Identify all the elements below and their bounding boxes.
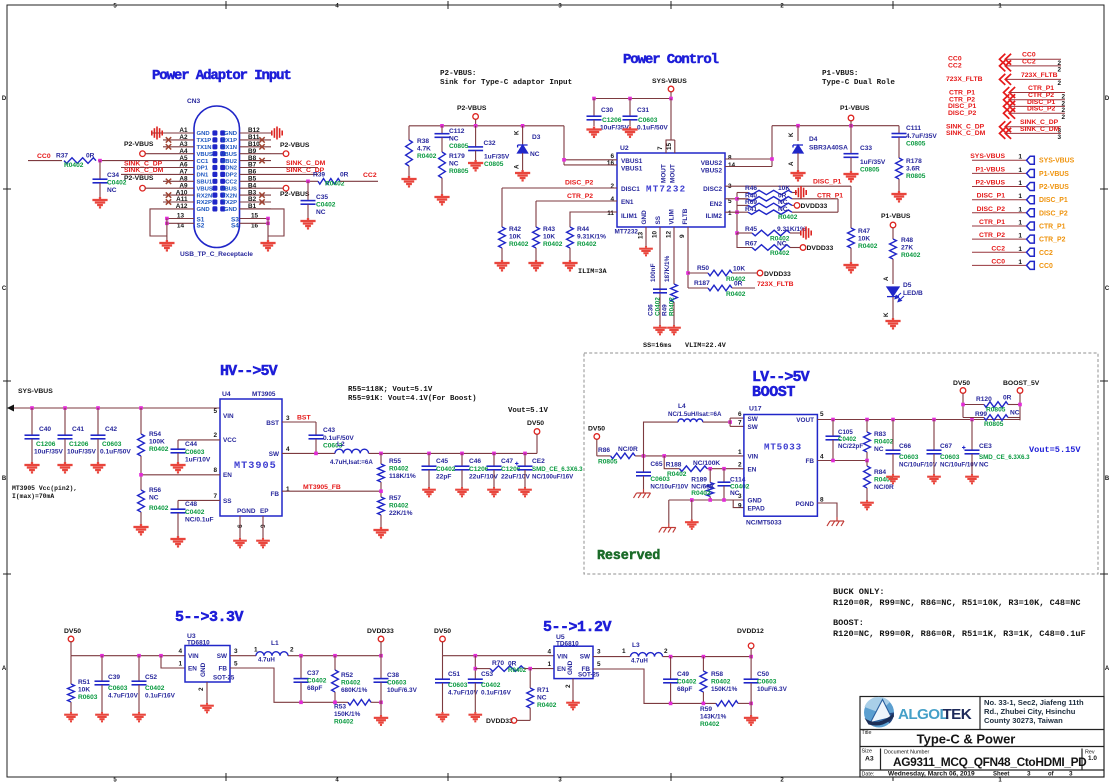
- svg-text:NC: NC: [1010, 410, 1020, 417]
- svg-text:USB_TP_C_Receptacle: USB_TP_C_Receptacle: [180, 251, 253, 258]
- svg-text:C0402: C0402: [185, 509, 205, 516]
- ground C51: [436, 712, 450, 721]
- wire SW: [282, 452, 335, 454]
- net SINK_C_DM left A7: [121, 173, 163, 175]
- svg-text:R0402: R0402: [667, 471, 687, 478]
- svg-text:R52: R52: [341, 672, 353, 679]
- svg-text:C36: C36: [648, 304, 655, 316]
- wire GND EPAD rail: [669, 499, 744, 501]
- wire SS C48: [178, 499, 220, 501]
- svg-text:1: 1: [178, 661, 182, 668]
- svg-text:RX2P: RX2P: [197, 200, 212, 206]
- svg-text:3: 3: [597, 649, 601, 656]
- svg-text:C0805: C0805: [906, 141, 926, 148]
- resistor R44 9.31K: [570, 212, 617, 227]
- svg-text:C65: C65: [650, 461, 662, 468]
- svg-text:CE3: CE3: [979, 443, 992, 450]
- svg-text:R67: R67: [745, 241, 757, 248]
- svg-text:GND: GND: [197, 131, 210, 137]
- svg-text:C111: C111: [906, 125, 921, 132]
- svg-text:DP2: DP2: [226, 173, 238, 179]
- ground C52: [132, 712, 146, 721]
- svg-text:1: 1: [286, 486, 290, 493]
- wire SW to L3: [593, 656, 630, 658]
- svg-text:P2-VBUS: P2-VBUS: [280, 191, 310, 198]
- svg-text:NC/10uF/10V: NC/10uF/10V: [940, 462, 979, 469]
- capacitor C114: [723, 469, 725, 482]
- svg-text:R45: R45: [745, 226, 757, 233]
- svg-text:VBUS: VBUS: [221, 186, 237, 192]
- svg-text:NC/0.1uF: NC/0.1uF: [185, 517, 214, 524]
- svg-text:R0402: R0402: [901, 252, 921, 259]
- svg-text:9: 9: [679, 234, 686, 238]
- svg-text:1uF/10V: 1uF/10V: [185, 457, 211, 464]
- svg-text:VBUS1: VBUS1: [621, 158, 643, 165]
- svg-text:DVDD12: DVDD12: [737, 628, 764, 635]
- svg-text:C53: C53: [481, 671, 493, 678]
- svg-text:R58: R58: [711, 671, 723, 678]
- svg-text:C0603: C0603: [108, 685, 128, 692]
- svg-text:MT5033: MT5033: [764, 442, 802, 453]
- svg-text:VLIM=22.4V: VLIM=22.4V: [685, 342, 727, 350]
- power bars B12: [240, 132, 272, 134]
- svg-text:L4: L4: [678, 403, 686, 410]
- capacitor C34: [99, 161, 101, 179]
- svg-text:10K: 10K: [543, 234, 555, 241]
- svg-text:DV50: DV50: [434, 628, 451, 635]
- svg-text:118K/1%: 118K/1%: [389, 473, 416, 480]
- svg-text:L2: L2: [337, 441, 345, 448]
- svg-text:R59: R59: [700, 706, 712, 713]
- svg-text:DP1: DP1: [197, 166, 209, 172]
- svg-text:R0402: R0402: [669, 297, 676, 316]
- net SINK_C_DP left A6: [121, 167, 163, 169]
- ground CN3 left: [159, 240, 174, 250]
- resistor R41 NC: [737, 211, 748, 213]
- wire L1 to DVDD33: [288, 655, 381, 657]
- svg-text:DISC_P1: DISC_P1: [813, 179, 842, 186]
- svg-text:5-->1.2V: 5-->1.2V: [543, 619, 612, 636]
- svg-text:Sink for Type-C adaptor Input: Sink for Type-C adaptor Input: [440, 79, 572, 87]
- svg-text:TX2N: TX2N: [222, 193, 237, 199]
- svg-text:4: 4: [286, 446, 290, 453]
- svg-text:R189: R189: [691, 476, 707, 483]
- capacitor C52: [138, 656, 140, 681]
- svg-text:1: 1: [738, 449, 742, 456]
- svg-text:1: 1: [1018, 154, 1022, 161]
- svg-text:FB: FB: [805, 458, 814, 465]
- wire VOUT rail: [817, 419, 1020, 421]
- svg-text:100nF: 100nF: [650, 263, 657, 282]
- svg-text:C0402: C0402: [307, 678, 327, 685]
- svg-text:4: 4: [610, 196, 614, 203]
- svg-text:16: 16: [607, 160, 615, 167]
- svg-text:U4: U4: [222, 391, 231, 398]
- svg-text:DISC2: DISC2: [703, 186, 722, 193]
- svg-text:C32: C32: [484, 140, 496, 147]
- svg-text:BOOST:: BOOST:: [833, 618, 864, 628]
- svg-text:DVDD33: DVDD33: [367, 628, 394, 635]
- svg-text:R0805: R0805: [598, 459, 618, 466]
- svg-text:R47: R47: [858, 228, 870, 235]
- resistor R70 0R: [474, 667, 478, 671]
- svg-text:R56: R56: [149, 487, 161, 494]
- wire ILIM2: [725, 211, 737, 213]
- svg-text:0R: 0R: [734, 281, 743, 288]
- svg-text:I(max)=70mA: I(max)=70mA: [12, 493, 54, 500]
- svg-text:7: 7: [657, 146, 664, 150]
- svg-text:2: 2: [1062, 114, 1066, 121]
- svg-text:DISC_P2: DISC_P2: [1039, 210, 1068, 217]
- svg-text:CTR_P1: CTR_P1: [949, 89, 975, 96]
- ground R84: [860, 500, 874, 509]
- svg-text:GND: GND: [224, 207, 237, 213]
- svg-text:NC: NC: [778, 199, 788, 206]
- svg-text:1uF/35V: 1uF/35V: [484, 154, 510, 161]
- svg-text:DVDD33: DVDD33: [764, 271, 791, 278]
- svg-text:DISC_P2: DISC_P2: [977, 206, 1006, 213]
- svg-text:C47: C47: [501, 458, 513, 465]
- svg-text:C45: C45: [436, 458, 448, 465]
- svg-text:DISC_P2: DISC_P2: [948, 110, 977, 117]
- svg-text:Vout=5.1V: Vout=5.1V: [508, 407, 548, 415]
- resistor R189 NC/68K vertical: [709, 469, 711, 483]
- capacitor C37: [300, 656, 302, 679]
- svg-text:BOOST: BOOST: [752, 384, 795, 401]
- net DISC_P1 wire: [725, 185, 851, 187]
- wire VCC: [178, 439, 220, 441]
- wire FB to divider buck12: [593, 669, 716, 703]
- svg-text:VBUS: VBUS: [221, 152, 237, 158]
- svg-text:VIN: VIN: [748, 454, 759, 461]
- svg-text:C0402: C0402: [436, 466, 456, 473]
- U4 PGND EP grounds: [239, 516, 241, 538]
- svg-text:R0402: R0402: [537, 702, 557, 709]
- svg-text:C0603: C0603: [757, 679, 777, 686]
- svg-text:K: K: [788, 132, 795, 137]
- svg-text:R83: R83: [874, 431, 886, 438]
- svg-text:ALGOL: ALGOL: [898, 706, 948, 723]
- power bars A1: [151, 132, 163, 134]
- svg-text:ILIM=3A: ILIM=3A: [578, 268, 607, 276]
- capacitor C39: [101, 656, 103, 681]
- ground D5: [885, 318, 900, 328]
- svg-text:R44: R44: [577, 226, 589, 233]
- ground D3: [515, 170, 530, 180]
- svg-text:R0402: R0402: [389, 466, 409, 473]
- svg-text:SOT-25: SOT-25: [213, 675, 235, 682]
- svg-text:TX2P: TX2P: [222, 200, 237, 206]
- svg-text:MT7232: MT7232: [646, 184, 686, 195]
- svg-text:C66: C66: [899, 443, 911, 450]
- svg-text:R178: R178: [906, 158, 922, 165]
- svg-text:MT3905: MT3905: [252, 391, 276, 398]
- svg-text:1: 1: [1018, 180, 1022, 187]
- wire SW pins: [728, 420, 732, 424]
- svg-text:VIN: VIN: [188, 653, 199, 660]
- svg-text:GND: GND: [224, 131, 237, 137]
- svg-text:P1-VBUS: P1-VBUS: [881, 213, 911, 220]
- svg-text:10uF/6.3V: 10uF/6.3V: [757, 686, 788, 693]
- ground C34: [92, 197, 107, 207]
- svg-text:2: 2: [565, 684, 572, 688]
- svg-text:R70: R70: [492, 660, 504, 667]
- svg-text:C1206: C1206: [602, 117, 622, 124]
- svg-text:D: D: [2, 96, 7, 102]
- svg-text:R84: R84: [874, 469, 886, 476]
- svg-text:NC/10uF/10V: NC/10uF/10V: [650, 483, 689, 490]
- svg-text:R0402: R0402: [508, 667, 527, 674]
- svg-text:S2: S2: [197, 223, 205, 230]
- svg-text:P1-VBUS: P1-VBUS: [976, 166, 1006, 173]
- svg-text:R71: R71: [537, 687, 549, 694]
- svg-text:EP: EP: [260, 508, 269, 515]
- resistor R50 10K: [688, 272, 708, 274]
- ground C30: [586, 127, 601, 137]
- svg-text:C0402: C0402: [316, 202, 336, 209]
- svg-text:R0402: R0402: [858, 243, 878, 250]
- svg-text:P2-VBUS: P2-VBUS: [457, 105, 487, 112]
- capacitor C51: [442, 656, 444, 679]
- svg-text:FLTB: FLTB: [682, 208, 689, 224]
- svg-text:R0603: R0603: [78, 694, 98, 701]
- svg-text:NC: NC: [449, 161, 459, 168]
- svg-text:C0402: C0402: [838, 436, 857, 443]
- svg-text:DISC_P2: DISC_P2: [1027, 106, 1056, 113]
- ground C32: [468, 160, 483, 170]
- svg-text:2: 2: [738, 462, 742, 469]
- svg-text:R0402: R0402: [543, 241, 563, 248]
- svg-text:R0805: R0805: [449, 168, 469, 175]
- svg-text:Power Control: Power Control: [623, 52, 719, 68]
- svg-text:P2-VBUS: P2-VBUS: [976, 180, 1006, 187]
- svg-text:No. 33-1, Sec2, Jiafeng 11th: No. 33-1, Sec2, Jiafeng 11th: [984, 698, 1084, 707]
- svg-text:0R: 0R: [340, 172, 349, 179]
- ground C38: [374, 715, 388, 725]
- svg-text:R55: R55: [389, 458, 401, 465]
- resistor R57 22K: [378, 497, 385, 515]
- ground C48: [170, 536, 185, 546]
- ground U2 GND: [639, 246, 653, 255]
- svg-text:EN: EN: [188, 666, 197, 673]
- wire EN buck33: [161, 656, 185, 668]
- svg-text:R50: R50: [697, 265, 709, 272]
- svg-text:3: 3: [1027, 771, 1031, 778]
- svg-text:ILIM1: ILIM1: [621, 213, 638, 220]
- svg-text:PGND: PGND: [796, 501, 815, 508]
- svg-text:R179: R179: [449, 153, 465, 160]
- svg-text:SW: SW: [580, 654, 591, 661]
- svg-text:1: 1: [1018, 259, 1022, 266]
- svg-text:Title: Title: [862, 730, 872, 736]
- svg-text:Reserved: Reserved: [597, 549, 660, 564]
- svg-text:P1-VBUS: P1-VBUS: [840, 105, 870, 112]
- svg-text:R0402: R0402: [577, 241, 597, 248]
- svg-text:1: 1: [547, 661, 551, 668]
- svg-text:R37: R37: [56, 153, 68, 160]
- svg-text:4: 4: [547, 649, 551, 656]
- wire EN: [707, 468, 744, 470]
- svg-text:CTR_P1: CTR_P1: [1028, 85, 1054, 92]
- resistor R52 680K: [334, 656, 336, 670]
- wire P1 rail: [772, 125, 899, 127]
- ground R42: [494, 260, 509, 270]
- svg-text:9: 9: [738, 503, 742, 510]
- ground R51: [64, 712, 78, 721]
- P2-VBUS right B4: [271, 187, 283, 189]
- ground C42: [90, 462, 105, 472]
- svg-text:TD6810: TD6810: [556, 640, 579, 647]
- svg-text:SBU1: SBU1: [197, 180, 213, 186]
- capacitor C35: [307, 181, 309, 200]
- svg-text:SS: SS: [223, 498, 232, 505]
- svg-text:R120: R120: [976, 396, 992, 403]
- svg-text:5-->3.3V: 5-->3.3V: [175, 609, 244, 626]
- svg-text:of: of: [1048, 772, 1055, 778]
- svg-text:DV50: DV50: [953, 380, 970, 387]
- svg-text:CC0: CC0: [1039, 263, 1053, 270]
- U3 GND stub: [206, 682, 208, 703]
- svg-text:R0402: R0402: [874, 439, 894, 446]
- capacitor C31: [629, 99, 631, 117]
- svg-text:4.7uF/10V: 4.7uF/10V: [108, 693, 139, 700]
- svg-text:C0603: C0603: [185, 449, 205, 456]
- svg-text:VBUS1: VBUS1: [621, 166, 643, 173]
- svg-text:CTR_P1: CTR_P1: [1039, 224, 1066, 231]
- svg-text:4.7uF/10V: 4.7uF/10V: [448, 690, 479, 697]
- svg-text:R57: R57: [389, 495, 401, 502]
- svg-text:GND: GND: [641, 210, 648, 225]
- svg-text:1: 1: [622, 648, 626, 655]
- svg-text:2: 2: [1058, 80, 1062, 87]
- CN3 no-connect x marks left: [166, 137, 171, 142]
- svg-text:NC: NC: [107, 187, 117, 194]
- svg-text:C0603: C0603: [102, 441, 122, 448]
- wire EN: [141, 474, 220, 476]
- svg-text:R49: R49: [662, 304, 669, 316]
- svg-text:Rd., Zhubei City, Hsinchu: Rd., Zhubei City, Hsinchu: [984, 707, 1076, 716]
- svg-text:L3: L3: [632, 642, 640, 649]
- svg-text:143K/1%: 143K/1%: [700, 714, 727, 721]
- B1 GND route right: [240, 209, 285, 236]
- svg-text:VBUS: VBUS: [197, 152, 213, 158]
- svg-text:P2-VBUS:: P2-VBUS:: [440, 70, 476, 78]
- svg-text:B: B: [2, 476, 7, 482]
- wire VBUS2 to P1 rail: [725, 158, 772, 160]
- svg-text:SYS-VBUS: SYS-VBUS: [970, 153, 1005, 160]
- ground EP: [256, 538, 270, 547]
- svg-text:VIN: VIN: [557, 654, 568, 661]
- diode D3 NC: [522, 126, 524, 145]
- svg-text:2: 2: [1058, 67, 1062, 74]
- svg-text:DV50: DV50: [588, 426, 605, 433]
- capacitor C66: [892, 420, 894, 451]
- svg-text:SBR3A40SA: SBR3A40SA: [809, 145, 848, 152]
- capacitor C44: [171, 449, 186, 453]
- resistor R40 0R: [737, 198, 748, 200]
- svg-text:Wednesday, March 06, 2019: Wednesday, March 06, 2019: [888, 771, 975, 778]
- svg-text:150K/1%: 150K/1%: [334, 711, 361, 718]
- S1 S2 wires: [167, 218, 194, 220]
- power DVDD33 R50: [757, 270, 763, 276]
- svg-text:RX1N: RX1N: [221, 145, 237, 151]
- svg-text:P1-VBUS: P1-VBUS: [1039, 171, 1069, 178]
- svg-text:R0402: R0402: [778, 214, 798, 221]
- resistor R48 27K: [892, 228, 894, 239]
- svg-text:680K/1%: 680K/1%: [341, 687, 368, 694]
- ground C44: [170, 462, 185, 472]
- earth ground PGND: [827, 517, 844, 526]
- svg-text:MT3905_FB: MT3905_FB: [303, 484, 341, 491]
- svg-text:R55=118K; Vout=5.1V: R55=118K; Vout=5.1V: [348, 386, 433, 394]
- svg-text:C: C: [2, 286, 7, 292]
- svg-text:C1206: C1206: [69, 441, 89, 448]
- net BST wire: [282, 421, 316, 423]
- svg-text:DISC_P2: DISC_P2: [565, 180, 594, 187]
- svg-text:6: 6: [738, 411, 742, 418]
- svg-text:C0805: C0805: [860, 167, 880, 174]
- wire VIN: [635, 455, 744, 457]
- svg-text:0.1uF/50V: 0.1uF/50V: [637, 125, 668, 132]
- net CC0 wire: [28, 160, 62, 162]
- svg-text:0.1uF/50V: 0.1uF/50V: [100, 449, 131, 456]
- ground C45: [422, 487, 436, 496]
- svg-text:GND: GND: [197, 207, 210, 213]
- capacitor C38: [380, 656, 382, 679]
- connector CN3 USB_TP_C_Receptacle body: [194, 106, 240, 248]
- IC U3 TD6810 body: [185, 646, 230, 683]
- svg-text:C51: C51: [448, 671, 460, 678]
- svg-text:C40: C40: [39, 426, 51, 433]
- ground C39: [95, 712, 109, 721]
- ground C36: [653, 325, 667, 334]
- resistor R46 10K: [737, 192, 748, 194]
- svg-text:P1-VBUS:: P1-VBUS:: [822, 70, 858, 78]
- svg-text:NC/0R: NC/0R: [874, 484, 894, 491]
- svg-text:NC/10uF/10V: NC/10uF/10V: [899, 462, 938, 469]
- svg-text:K: K: [514, 130, 521, 135]
- svg-text:5: 5: [213, 408, 217, 415]
- svg-text:CC2: CC2: [948, 62, 962, 69]
- svg-text:DISC_P1: DISC_P1: [1039, 197, 1068, 204]
- svg-text:D3: D3: [532, 134, 541, 141]
- svg-text:C33: C33: [860, 145, 872, 152]
- capacitor C42: [97, 408, 99, 435]
- svg-text:P2-VBUS: P2-VBUS: [124, 175, 154, 182]
- capacitor C43: [309, 435, 324, 439]
- svg-text:5: 5: [234, 661, 238, 668]
- wire FB to divider: [230, 668, 348, 702]
- svg-text:5: 5: [597, 661, 601, 668]
- wire SYS-VBUS to MOUT: [666, 99, 671, 154]
- ground C35: [300, 218, 315, 228]
- svg-text:R42: R42: [509, 226, 521, 233]
- net CTR_P2: [536, 200, 617, 202]
- svg-text:RX1P: RX1P: [222, 138, 237, 144]
- ground C31: [622, 127, 637, 137]
- svg-text:7: 7: [213, 493, 217, 500]
- svg-text:NC/100K: NC/100K: [693, 460, 720, 467]
- wire L2 to output rail: [369, 452, 537, 454]
- wire P2 rail: [409, 125, 564, 127]
- svg-text:C0603: C0603: [940, 454, 960, 461]
- svg-text:SOT-25: SOT-25: [578, 672, 600, 679]
- capacitor C30: [593, 99, 595, 117]
- svg-text:R0805: R0805: [986, 406, 1006, 413]
- svg-text:R0402: R0402: [711, 679, 731, 686]
- svg-text:MT3905: MT3905: [234, 461, 277, 472]
- svg-text:R0402: R0402: [509, 241, 529, 248]
